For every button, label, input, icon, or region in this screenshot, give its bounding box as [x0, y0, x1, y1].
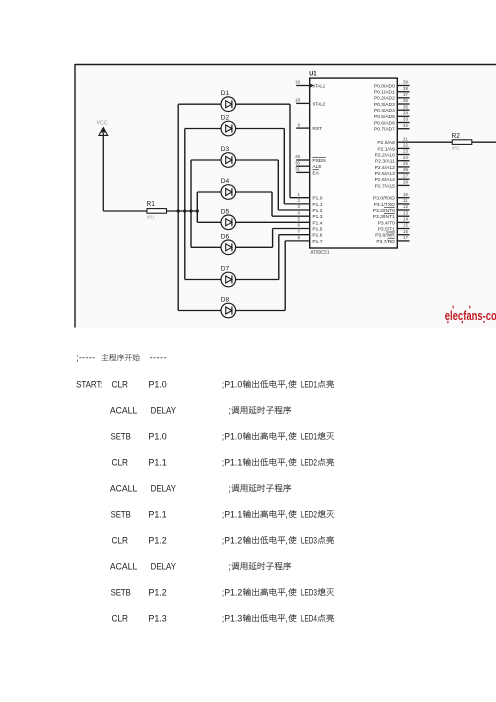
svg-text:-----: ----- — [150, 353, 168, 363]
svg-text:P1.3: P1.3 — [312, 214, 322, 220]
svg-text:P1.0: P1.0 — [148, 379, 166, 389]
svg-text:P1.5: P1.5 — [312, 226, 322, 232]
svg-text:D8: D8 — [221, 297, 230, 304]
svg-text:P1.4: P1.4 — [312, 220, 322, 226]
svg-text:P1.1: P1.1 — [312, 202, 322, 208]
svg-text:;: ; — [228, 405, 231, 415]
svg-text:D5: D5 — [221, 208, 230, 215]
svg-text:38: 38 — [403, 86, 408, 91]
svg-text:19: 19 — [295, 80, 300, 85]
svg-text:31: 31 — [295, 167, 300, 172]
svg-text:P1.1: P1.1 — [148, 457, 166, 467]
svg-text:;-----: ;----- — [76, 353, 95, 363]
svg-text:SETB: SETB — [111, 587, 131, 597]
svg-text:R2: R2 — [452, 131, 460, 140]
svg-text:;P1.0: ;P1.0 — [222, 379, 242, 389]
svg-text:30: 30 — [295, 160, 300, 165]
svg-text:33: 33 — [403, 117, 408, 122]
svg-text:10: 10 — [403, 192, 408, 197]
svg-text:P2.7/A15: P2.7/A15 — [375, 183, 395, 189]
svg-text:22: 22 — [403, 143, 408, 148]
svg-text:,: , — [285, 379, 288, 389]
svg-text:P2.4/A12: P2.4/A12 — [375, 165, 395, 171]
svg-text:P1.2: P1.2 — [148, 587, 166, 597]
svg-text:,: , — [285, 457, 288, 467]
svg-text:P0.5/AD5: P0.5/AD5 — [374, 114, 395, 120]
svg-text:P0.0/AD0: P0.0/AD0 — [374, 83, 395, 89]
svg-text:LED1: LED1 — [301, 431, 317, 441]
svg-text:P3.6/WR: P3.6/WR — [375, 233, 395, 239]
svg-text:VCC: VCC — [97, 121, 108, 127]
svg-text:LED3: LED3 — [301, 535, 317, 545]
svg-text:25: 25 — [403, 161, 408, 166]
svg-text:CLR: CLR — [112, 613, 129, 623]
svg-text:U1: U1 — [309, 71, 316, 78]
svg-text:P3.2/INT0: P3.2/INT0 — [373, 208, 395, 214]
svg-text:CLR: CLR — [112, 535, 129, 545]
svg-text:D2: D2 — [221, 115, 230, 122]
svg-text:ACALL: ACALL — [110, 483, 137, 493]
svg-text:SETB: SETB — [111, 431, 131, 441]
svg-text:35: 35 — [403, 104, 408, 109]
svg-text:26: 26 — [403, 167, 408, 172]
svg-text:R1: R1 — [147, 199, 155, 208]
svg-text:,: , — [285, 535, 288, 545]
svg-text:;: ; — [228, 561, 231, 571]
svg-text:P3.4/T0: P3.4/T0 — [378, 220, 395, 226]
svg-text:36: 36 — [403, 98, 408, 103]
svg-text:P0.3/AD3: P0.3/AD3 — [374, 102, 395, 108]
svg-text:,: , — [285, 613, 288, 623]
svg-text:D4: D4 — [221, 178, 230, 185]
svg-text:P3.5/T1: P3.5/T1 — [378, 226, 395, 232]
svg-text:P0.6/AD6: P0.6/AD6 — [374, 120, 395, 126]
svg-text:ACALL: ACALL — [110, 561, 137, 571]
svg-text:6R2: 6R2 — [452, 146, 460, 151]
svg-text:P3.3/INT1: P3.3/INT1 — [373, 214, 395, 220]
svg-text:RST: RST — [312, 126, 322, 132]
svg-text:32: 32 — [403, 123, 408, 128]
svg-text:39: 39 — [403, 80, 408, 85]
svg-text:LED2: LED2 — [301, 457, 317, 467]
svg-text:P3.1/TXD: P3.1/TXD — [374, 202, 396, 208]
svg-text:P1.7: P1.7 — [312, 239, 322, 245]
svg-text:XTAL1: XTAL1 — [312, 83, 325, 89]
svg-text:12: 12 — [403, 204, 408, 209]
svg-text:21: 21 — [403, 136, 408, 141]
svg-text:LED3: LED3 — [301, 587, 317, 597]
svg-text:D6: D6 — [221, 233, 230, 240]
svg-text:START:: START: — [76, 379, 103, 389]
svg-text:LED4: LED4 — [301, 613, 317, 623]
svg-text:;P1.2: ;P1.2 — [222, 535, 242, 545]
svg-text:,: , — [285, 509, 288, 519]
svg-text:CLR: CLR — [112, 457, 129, 467]
svg-text:EA: EA — [312, 170, 319, 176]
svg-text:P1.2: P1.2 — [312, 208, 322, 214]
svg-text:elecfans-co: elecfans-co — [445, 309, 496, 323]
svg-text:AT89C51: AT89C51 — [311, 250, 330, 256]
svg-text:P1.1: P1.1 — [148, 509, 166, 519]
svg-text:P2.2/A10: P2.2/A10 — [375, 152, 395, 158]
svg-text:15: 15 — [403, 223, 408, 228]
svg-text:LED2: LED2 — [301, 509, 317, 519]
svg-text:XTAL2: XTAL2 — [312, 101, 325, 107]
svg-text:P1.2: P1.2 — [148, 535, 166, 545]
svg-text:D7: D7 — [221, 266, 230, 273]
svg-text:ALE: ALE — [312, 164, 322, 170]
svg-text:29: 29 — [295, 154, 300, 159]
svg-text:P0.7/AD7: P0.7/AD7 — [374, 127, 395, 133]
svg-text:,: , — [285, 587, 288, 597]
svg-text:P2.5/A13: P2.5/A13 — [375, 171, 395, 177]
svg-text:CLR: CLR — [112, 379, 129, 389]
svg-text:P2.3/A11: P2.3/A11 — [375, 159, 395, 165]
svg-text:;P1.2: ;P1.2 — [222, 587, 242, 597]
svg-text:18: 18 — [295, 98, 300, 103]
svg-text:28: 28 — [403, 180, 408, 185]
svg-text:P0.2/AD2: P0.2/AD2 — [374, 96, 395, 102]
svg-text:DELAY: DELAY — [151, 561, 176, 571]
svg-text:ACALL: ACALL — [110, 405, 137, 415]
svg-text:P1.0: P1.0 — [148, 431, 166, 441]
svg-text:16: 16 — [403, 229, 408, 234]
svg-text:LED1: LED1 — [301, 379, 317, 389]
svg-text:11: 11 — [403, 198, 408, 203]
svg-text:P3.7/RD: P3.7/RD — [376, 239, 395, 245]
svg-text:P2.6/A14: P2.6/A14 — [375, 177, 395, 183]
svg-text:13: 13 — [403, 210, 408, 215]
svg-text:23: 23 — [403, 149, 408, 154]
svg-text:;P1.0: ;P1.0 — [222, 431, 242, 441]
svg-text:D1: D1 — [221, 90, 230, 97]
svg-text:P0.4/AD4: P0.4/AD4 — [374, 108, 395, 114]
svg-text:27: 27 — [403, 173, 408, 178]
svg-text:24: 24 — [403, 155, 408, 160]
svg-text:,: , — [285, 431, 288, 441]
svg-text:17: 17 — [403, 235, 408, 240]
svg-text:DELAY: DELAY — [151, 405, 176, 415]
svg-text:P1.0: P1.0 — [312, 196, 322, 202]
svg-text:D3: D3 — [221, 146, 230, 153]
svg-text:SETB: SETB — [111, 509, 131, 519]
svg-text:;P1.3: ;P1.3 — [222, 613, 242, 623]
svg-text:P1.6: P1.6 — [312, 233, 322, 239]
svg-text:;P1.1: ;P1.1 — [222, 457, 242, 467]
svg-text:;P1.1: ;P1.1 — [222, 509, 242, 519]
svg-text:37: 37 — [403, 92, 408, 97]
svg-text:P2.1/A9: P2.1/A9 — [377, 146, 395, 152]
svg-text:P3.0/RXD: P3.0/RXD — [373, 196, 395, 202]
svg-text:;: ; — [228, 483, 231, 493]
svg-text:34: 34 — [403, 111, 408, 116]
svg-text:14: 14 — [403, 217, 408, 222]
svg-text:P0.1/AD1: P0.1/AD1 — [374, 90, 395, 96]
svg-text:PSEN: PSEN — [312, 158, 326, 164]
svg-text:P1.3: P1.3 — [148, 613, 166, 623]
svg-text:6R1: 6R1 — [147, 214, 155, 219]
svg-text:DELAY: DELAY — [151, 483, 176, 493]
svg-text:P2.0/A8: P2.0/A8 — [377, 140, 395, 146]
